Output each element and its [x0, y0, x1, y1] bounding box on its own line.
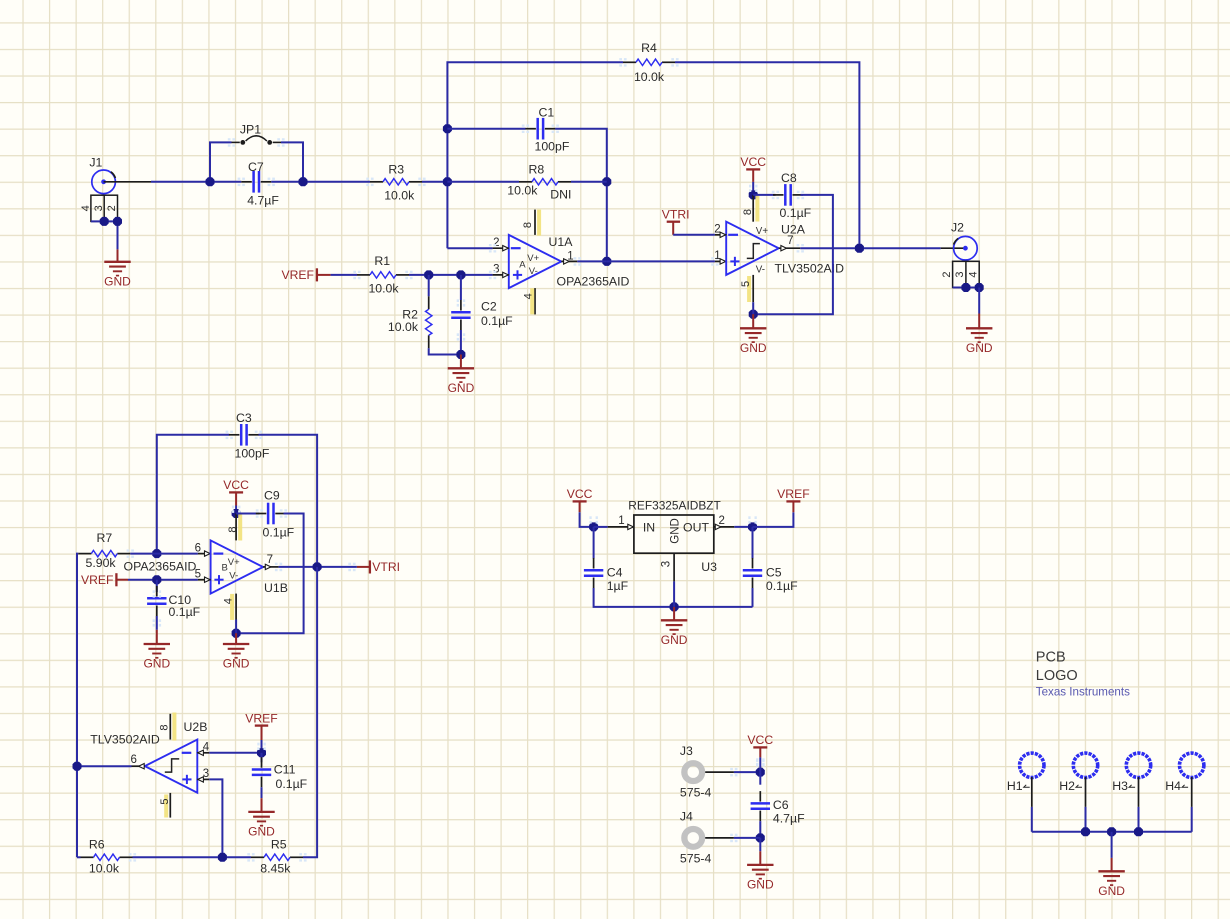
svg-text:A: A [519, 259, 526, 270]
svg-text:4.7µF: 4.7µF [247, 194, 279, 208]
svg-text:5: 5 [159, 798, 171, 804]
svg-text:100pF: 100pF [235, 447, 270, 461]
svg-text:6: 6 [130, 754, 136, 766]
svg-text:GND: GND [104, 274, 131, 288]
svg-text:VTRI: VTRI [662, 207, 690, 221]
svg-text:VCC: VCC [747, 733, 773, 747]
svg-text:0.1µF: 0.1µF [169, 605, 201, 619]
svg-text:VREF: VREF [81, 573, 114, 587]
svg-text:GND: GND [747, 877, 774, 891]
svg-text:8: 8 [742, 209, 754, 215]
svg-text:U3: U3 [701, 560, 717, 574]
svg-text:REF3325AIDBZT: REF3325AIDBZT [628, 499, 721, 513]
svg-text:2: 2 [714, 224, 720, 236]
svg-text:C7: C7 [248, 160, 264, 174]
svg-text:V+: V+ [756, 226, 769, 237]
svg-text:VREF: VREF [281, 268, 314, 282]
svg-text:C8: C8 [781, 171, 797, 185]
svg-text:4: 4 [80, 205, 92, 211]
svg-text:4.7µF: 4.7µF [773, 811, 805, 825]
svg-text:GND: GND [670, 518, 682, 544]
svg-text:R8: R8 [529, 162, 545, 176]
svg-text:GND: GND [661, 633, 688, 647]
svg-text:C3: C3 [236, 411, 252, 425]
svg-text:C2: C2 [481, 299, 497, 313]
svg-text:2: 2 [941, 271, 953, 277]
svg-text:TLV3502AID: TLV3502AID [90, 732, 160, 746]
svg-text:GND: GND [448, 381, 475, 395]
svg-text:8: 8 [159, 724, 171, 730]
svg-text:10.0k: 10.0k [368, 282, 399, 296]
svg-text:10.0k: 10.0k [89, 862, 120, 876]
svg-text:4: 4 [522, 293, 534, 299]
svg-text:J3: J3 [680, 744, 693, 758]
svg-text:J4: J4 [680, 810, 693, 824]
svg-text:575-4: 575-4 [680, 852, 712, 866]
svg-text:0.1µF: 0.1µF [276, 777, 308, 791]
svg-text:C4: C4 [607, 565, 623, 579]
svg-text:OPA2365AID: OPA2365AID [557, 275, 630, 289]
svg-text:GND: GND [740, 341, 767, 355]
svg-text:0.1µF: 0.1µF [481, 314, 513, 328]
svg-text:5.90k: 5.90k [86, 556, 117, 570]
svg-text:3: 3 [93, 205, 105, 211]
svg-text:3: 3 [493, 264, 499, 276]
svg-text:GND: GND [143, 657, 170, 671]
svg-text:V+: V+ [527, 253, 539, 264]
svg-text:Texas Instruments: Texas Instruments [1036, 686, 1130, 699]
svg-text:VREF: VREF [245, 711, 278, 725]
svg-text:4: 4 [222, 598, 234, 604]
svg-text:6: 6 [195, 542, 201, 554]
svg-text:H1: H1 [1007, 779, 1023, 793]
svg-text:R6: R6 [89, 838, 105, 852]
svg-text:C5: C5 [766, 565, 782, 579]
svg-text:C9: C9 [264, 488, 280, 502]
svg-text:IN: IN [643, 521, 655, 535]
svg-text:GND: GND [1098, 884, 1125, 898]
svg-text:H2: H2 [1059, 779, 1075, 793]
svg-text:H4: H4 [1165, 779, 1181, 793]
svg-text:DNI: DNI [550, 187, 571, 201]
svg-text:5: 5 [740, 281, 752, 287]
svg-text:C1: C1 [539, 105, 555, 119]
svg-text:4: 4 [968, 271, 980, 277]
svg-text:0.1µF: 0.1µF [780, 206, 812, 220]
svg-text:1: 1 [714, 250, 720, 262]
svg-text:7: 7 [267, 554, 273, 566]
svg-text:V-: V- [529, 266, 538, 277]
svg-text:C6: C6 [773, 798, 789, 812]
svg-text:JP1: JP1 [240, 123, 261, 137]
svg-text:VCC: VCC [223, 478, 249, 492]
svg-text:V-: V- [756, 265, 765, 276]
svg-text:2: 2 [718, 515, 724, 527]
svg-text:10.0k: 10.0k [388, 320, 419, 334]
svg-text:7: 7 [787, 235, 793, 247]
svg-text:1: 1 [618, 515, 624, 527]
svg-text:3: 3 [203, 768, 209, 780]
svg-text:VCC: VCC [567, 487, 593, 501]
svg-text:V-: V- [229, 570, 238, 581]
svg-text:0.1µF: 0.1µF [766, 579, 798, 593]
svg-text:10.0k: 10.0k [634, 70, 665, 84]
svg-text:VREF: VREF [777, 487, 810, 501]
svg-text:U1B: U1B [264, 581, 288, 595]
svg-text:R1: R1 [374, 254, 390, 268]
svg-text:R5: R5 [271, 838, 287, 852]
svg-text:3: 3 [660, 561, 672, 567]
svg-text:4: 4 [203, 741, 210, 753]
svg-text:R7: R7 [97, 531, 113, 545]
svg-text:J2: J2 [951, 221, 964, 235]
svg-text:H3: H3 [1112, 779, 1128, 793]
svg-text:8: 8 [522, 222, 534, 228]
svg-text:2: 2 [106, 205, 118, 211]
svg-text:GND: GND [966, 341, 993, 355]
svg-text:1µF: 1µF [607, 579, 629, 593]
svg-text:U2B: U2B [184, 720, 208, 734]
svg-text:GND: GND [248, 824, 275, 838]
svg-text:U1A: U1A [549, 235, 574, 249]
svg-text:OUT: OUT [683, 521, 709, 535]
svg-text:C11: C11 [274, 763, 296, 777]
svg-text:OPA2365AID: OPA2365AID [124, 560, 197, 574]
svg-text:V+: V+ [228, 557, 240, 568]
svg-text:10.0k: 10.0k [507, 184, 538, 198]
svg-text:2: 2 [493, 237, 499, 249]
svg-text:575-4: 575-4 [680, 786, 712, 800]
svg-text:LOGO: LOGO [1036, 668, 1078, 684]
svg-text:0.1µF: 0.1µF [263, 525, 295, 539]
svg-text:100pF: 100pF [535, 140, 570, 154]
svg-text:PCB: PCB [1036, 650, 1066, 666]
svg-text:8.45k: 8.45k [260, 862, 291, 876]
svg-text:VCC: VCC [740, 155, 766, 169]
svg-text:GND: GND [223, 657, 250, 671]
svg-text:R4: R4 [641, 41, 657, 55]
svg-text:VTRI: VTRI [372, 560, 400, 574]
svg-text:3: 3 [954, 271, 966, 277]
svg-text:J1: J1 [89, 155, 102, 169]
svg-text:R3: R3 [388, 163, 404, 177]
svg-text:10.0k: 10.0k [384, 188, 415, 202]
svg-text:8: 8 [227, 526, 239, 532]
